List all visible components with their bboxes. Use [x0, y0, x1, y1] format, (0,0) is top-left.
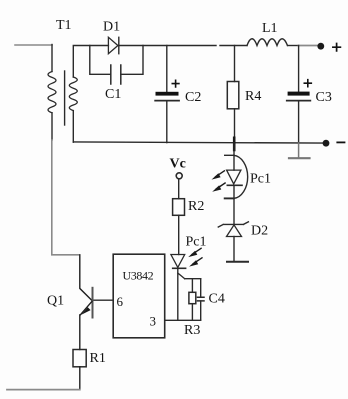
wire R2 to Pc1 photodiode — [178, 215, 180, 254]
resistor R4 lead bottom — [234, 109, 236, 143]
capacitor C3 plates — [288, 92, 310, 96]
wire branch diagonal to RC — [178, 273, 185, 279]
optocoupler Pc1 LED wire bottom — [233, 185, 235, 224]
optocoupler Pc1 LED top bar — [225, 154, 234, 156]
resistor R4 lead top — [234, 46, 236, 82]
optocoupler Pc1 LED cathode bar — [227, 184, 242, 186]
svg-text:R2: R2 — [188, 199, 204, 214]
transistor Q1 emitter arrow — [81, 307, 90, 315]
svg-text:R3: R3 — [184, 323, 200, 338]
optocoupler Pc1 photodiode triangle — [171, 255, 185, 268]
node Vc terminal circle — [176, 173, 182, 179]
svg-text:Q1: Q1 — [47, 294, 64, 309]
zener D2 bar — [218, 222, 248, 227]
junction R4 rail — [233, 138, 236, 150]
inductor L1 — [247, 39, 288, 46]
capacitor C4 plates — [198, 297, 205, 301]
svg-text:Pc1: Pc1 — [186, 235, 207, 250]
capacitor C1 loop right — [121, 46, 143, 75]
optocoupler Pc1 LED bottom bar — [225, 197, 234, 199]
wire gray primary to Q1 — [52, 140, 79, 255]
capacitor C1 loop left — [90, 46, 111, 75]
wire R4 rail to Pc1 — [233, 143, 235, 155]
capacitor C1 plates — [110, 65, 112, 84]
svg-text:R1: R1 — [90, 351, 106, 366]
optocoupler Pc1 LED triangle — [227, 170, 241, 184]
wire pin 6 — [93, 299, 113, 301]
wire L1 to C3 — [288, 45, 299, 47]
optocoupler Pc1 LED circle arc — [234, 155, 248, 198]
resistor R3 lead bottom — [191, 304, 193, 320]
wire secondary top lead — [73, 46, 108, 78]
wire primary top lead — [51, 45, 53, 72]
wire Q1 emitter to R1 — [79, 315, 81, 350]
transistor Q1 emitter — [80, 301, 92, 315]
capacitor C3 lead bottom — [298, 102, 300, 144]
resistor R4 body — [227, 82, 239, 109]
wire pin 3 — [165, 319, 201, 321]
svg-text:L1: L1 — [262, 21, 278, 36]
transformer T1 primary winding — [48, 72, 56, 113]
svg-text:U3842: U3842 — [123, 269, 154, 283]
svg-text:C2: C2 — [185, 90, 201, 105]
svg-text:3: 3 — [150, 314, 157, 329]
optocoupler Pc1 LED emit arrow 2 — [216, 183, 225, 189]
label + output — [333, 44, 341, 51]
zener D2 lead bottom — [233, 237, 235, 262]
node - output terminal — [323, 140, 330, 147]
optocoupler Pc1 photodiode cathode bar — [173, 267, 186, 269]
resistor R3 body — [189, 292, 196, 303]
capacitor C4 lead top — [200, 279, 202, 297]
svg-text:C1: C1 — [105, 87, 121, 102]
transformer T1 secondary winding — [69, 77, 77, 111]
optocoupler Pc1 LED emit arrow 1 — [216, 171, 225, 177]
node + output terminal — [317, 43, 324, 50]
optocoupler Pc1 LED wire top — [233, 155, 235, 170]
svg-text:Pc1: Pc1 — [250, 172, 271, 187]
transformer T1 core — [64, 71, 66, 125]
wire RC top horizontal — [185, 278, 201, 280]
label + of C3 — [304, 80, 311, 87]
transistor Q1 base bar — [92, 288, 94, 318]
svg-text:R4: R4 — [245, 89, 261, 104]
resistor R1 body — [73, 350, 86, 367]
wire gray bottom-left return — [7, 389, 80, 391]
resistor R2 body — [173, 199, 185, 216]
capacitor C2 lead bottom — [166, 102, 168, 143]
wire Vc to R2 — [178, 179, 180, 199]
diode D1 — [108, 37, 118, 53]
zener D2 triangle — [227, 225, 242, 237]
terminal bar below D2 — [227, 261, 248, 263]
svg-text:D1: D1 — [103, 20, 120, 35]
svg-text:C3: C3 — [316, 90, 332, 105]
svg-text:6: 6 — [117, 294, 124, 309]
svg-text:T1: T1 — [56, 18, 72, 33]
label + of C2 — [172, 80, 179, 87]
transistor Q1 collector — [80, 255, 92, 301]
wire top rail D1 to gap — [119, 45, 216, 47]
capacitor C2 plates — [156, 92, 179, 96]
ground below C3 — [298, 143, 300, 158]
wire gray C3 to terminal — [299, 45, 317, 47]
wire bottom output rail — [73, 142, 325, 143]
wire input top-left — [15, 44, 52, 46]
wire primary bottom lead — [51, 113, 53, 140]
optocoupler Pc1 receive arrow 1 — [192, 248, 201, 254]
capacitor C2 lead top — [166, 46, 168, 92]
resistor R3 lead top — [191, 279, 193, 293]
capacitor C3 lead top — [298, 46, 300, 92]
wire R1 bottom — [79, 367, 81, 390]
wire secondary bottom lead — [72, 111, 74, 143]
wire Pc1 photodiode to pin3 junction — [177, 268, 179, 320]
optocoupler Pc1 receive arrow 2 — [193, 258, 202, 264]
svg-text:C4: C4 — [209, 292, 225, 307]
capacitor C4 lead bottom — [200, 301, 202, 320]
svg-text:Vc: Vc — [170, 157, 186, 172]
wire top rail gap to L1 — [220, 45, 247, 47]
IC U3842 box — [113, 254, 165, 338]
label - output — [337, 141, 344, 143]
svg-text:D2: D2 — [251, 224, 268, 239]
